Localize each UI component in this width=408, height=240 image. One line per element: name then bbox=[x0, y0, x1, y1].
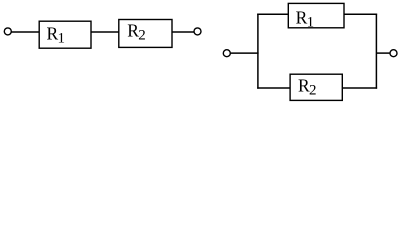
wire (top branch, left) bbox=[257, 13, 288, 15]
svg-text:R1: R1 bbox=[296, 8, 314, 31]
wire (right bus) bbox=[375, 14, 377, 89]
resistor R1 (series) bbox=[39, 21, 91, 48]
wire bbox=[11, 31, 39, 33]
wire bbox=[91, 31, 119, 33]
wire bbox=[231, 52, 259, 54]
terminal T4 (parallel circuit, right) bbox=[390, 50, 397, 57]
resistor R2 (series) bbox=[119, 20, 172, 48]
terminal T2 (series circuit, right) bbox=[194, 28, 201, 35]
wire bbox=[172, 31, 194, 33]
svg-text:R1: R1 bbox=[47, 24, 65, 47]
wire (bottom branch, left) bbox=[257, 87, 290, 89]
wire bbox=[376, 52, 389, 54]
wire (bottom branch, right) bbox=[342, 87, 377, 89]
terminal T3 (parallel circuit, left) bbox=[223, 50, 230, 57]
resistor R2 (parallel, bottom) bbox=[290, 74, 342, 100]
wire (left bus) bbox=[257, 14, 259, 89]
terminal T1 (series circuit, left) bbox=[4, 28, 11, 35]
svg-text:R2: R2 bbox=[127, 20, 145, 43]
resistor R1 (parallel, top) bbox=[288, 3, 344, 27]
wire (top branch, right) bbox=[344, 13, 377, 15]
svg-text:R2: R2 bbox=[298, 76, 316, 99]
